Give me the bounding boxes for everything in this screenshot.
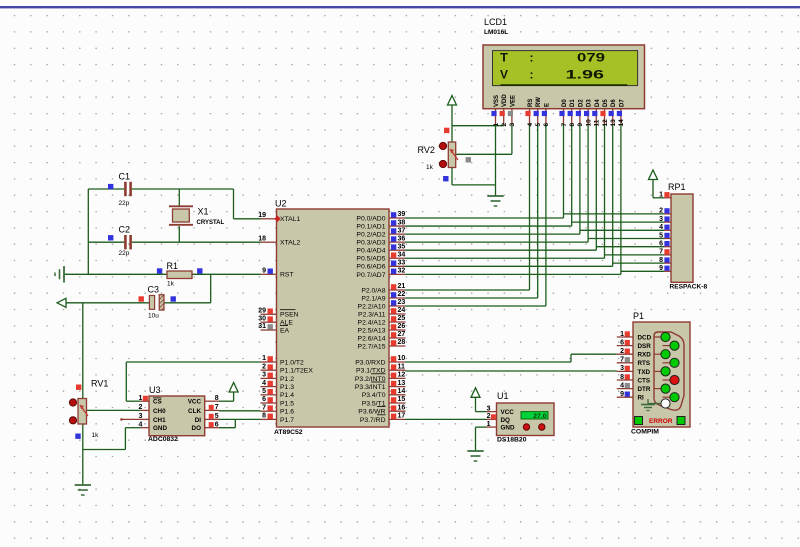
svg-text:U1: U1 [497,391,509,401]
svg-text:4: 4 [262,380,266,387]
svg-text:3: 3 [659,216,663,223]
svg-text:C1: C1 [119,172,131,182]
svg-text:38: 38 [398,219,406,226]
svg-text:2: 2 [138,404,142,411]
svg-text:8: 8 [569,123,576,127]
svg-text:RS: RS [528,99,534,107]
svg-text:D2: D2 [578,99,584,107]
svg-text:11: 11 [594,119,601,126]
svg-text:1k: 1k [92,432,100,439]
svg-text:D1: D1 [570,99,576,107]
svg-text:1.96: 1.96 [566,69,605,81]
svg-text:P3.0/RXD: P3.0/RXD [355,359,385,366]
svg-text:CS: CS [153,399,162,406]
svg-text:P2.3/A11: P2.3/A11 [358,311,386,318]
svg-text:14: 14 [618,119,625,127]
svg-text:19: 19 [258,212,266,219]
svg-text:7: 7 [262,404,266,411]
svg-text::: : [530,69,534,81]
svg-text:X1: X1 [198,207,209,217]
svg-text:GND: GND [153,425,167,432]
svg-text:16: 16 [398,404,406,411]
svg-text:3: 3 [487,405,491,412]
svg-text:8: 8 [262,413,266,420]
svg-text:4: 4 [659,224,663,231]
svg-text:5: 5 [659,232,663,239]
svg-text:10: 10 [398,355,406,362]
svg-text:RW: RW [536,97,542,107]
svg-text:RV2: RV2 [418,145,435,155]
svg-text:D4: D4 [595,99,601,107]
svg-text:1: 1 [262,355,266,362]
svg-text:22p: 22p [119,200,130,207]
svg-text:36: 36 [398,235,406,242]
svg-text:RST: RST [280,272,294,279]
svg-text:VCC: VCC [188,399,202,406]
svg-text:14: 14 [398,388,406,395]
svg-text:3: 3 [620,365,624,372]
svg-text:29: 29 [258,308,266,315]
svg-text:2: 2 [659,208,663,215]
svg-text:CLK: CLK [188,408,201,415]
svg-text:VEE: VEE [510,95,516,107]
svg-text:TXD: TXD [638,369,651,376]
svg-text:P0.6/AD6: P0.6/AD6 [356,264,385,271]
svg-text:P1.0/T2: P1.0/T2 [280,359,304,366]
svg-text:5: 5 [262,388,266,395]
svg-text:D7: D7 [619,99,625,107]
svg-text:P0.4/AD4: P0.4/AD4 [356,248,385,255]
svg-text:P0.0/AD0: P0.0/AD0 [356,215,385,222]
svg-text:6: 6 [659,241,663,248]
svg-text:8: 8 [659,257,663,264]
svg-text:D6: D6 [611,99,617,107]
svg-text:27: 27 [398,331,406,338]
svg-text:7: 7 [620,357,624,364]
svg-text:1: 1 [138,395,142,402]
svg-text:D0: D0 [562,99,568,107]
svg-text:12: 12 [602,119,609,127]
svg-text:13: 13 [398,380,406,387]
svg-text:XTAL1: XTAL1 [280,216,300,223]
svg-text:VCC: VCC [501,409,515,416]
svg-text:CRYSTAL: CRYSTAL [197,220,225,226]
svg-text:31: 31 [258,323,266,330]
svg-text:GND: GND [501,425,515,432]
svg-text:39: 39 [398,211,406,218]
svg-text:RV1: RV1 [91,379,108,389]
svg-text:21: 21 [398,283,406,290]
svg-text:2: 2 [262,363,266,370]
svg-text:5: 5 [215,413,219,420]
svg-text:26: 26 [398,323,406,330]
svg-text:PSEN: PSEN [280,312,299,319]
svg-text:9: 9 [620,391,624,398]
svg-text:RESPACK-8: RESPACK-8 [670,284,708,291]
svg-text:VSS: VSS [494,95,500,107]
svg-text:7: 7 [561,123,568,127]
svg-text:ERROR: ERROR [649,418,673,425]
svg-text:1k: 1k [426,164,434,171]
svg-text:XTAL2: XTAL2 [280,240,300,247]
svg-text:35: 35 [398,243,406,250]
svg-text:COMPIM: COMPIM [631,429,659,436]
svg-text:P0.2/AD2: P0.2/AD2 [356,232,385,239]
svg-text:DO: DO [192,425,202,432]
svg-text:9: 9 [659,265,663,272]
svg-text:DI: DI [195,417,202,424]
svg-text:E: E [544,103,550,107]
svg-text:25: 25 [398,315,406,322]
svg-text:9: 9 [577,123,584,127]
svg-text:1: 1 [493,123,500,127]
svg-text:1k: 1k [167,281,175,288]
svg-text:33: 33 [398,260,406,267]
svg-text:3: 3 [262,372,266,379]
svg-text:CTS: CTS [638,377,651,384]
svg-text:P1.3: P1.3 [280,384,294,391]
svg-text:DQ: DQ [501,417,511,424]
svg-text:27.0: 27.0 [533,413,546,420]
svg-text:P1.4: P1.4 [280,392,294,399]
svg-text:9: 9 [262,268,266,275]
svg-text:22: 22 [398,291,406,298]
svg-text:P1.5: P1.5 [280,400,294,407]
svg-text:ADC0832: ADC0832 [148,436,178,443]
svg-text:P0.3/AD3: P0.3/AD3 [356,240,385,247]
svg-text:6: 6 [215,422,219,429]
svg-text:C3: C3 [148,285,160,295]
svg-text:7: 7 [215,404,219,411]
svg-text:V: V [500,69,508,81]
svg-text:T: T [500,52,508,64]
svg-text:23: 23 [398,299,406,306]
svg-text:2: 2 [487,413,491,420]
svg-text:CH0: CH0 [153,408,166,415]
svg-text:P1: P1 [633,311,644,321]
svg-text:P0.5/AD5: P0.5/AD5 [356,256,385,263]
svg-text:P1.7: P1.7 [280,417,294,424]
svg-text:CH1: CH1 [153,417,166,424]
svg-text:4: 4 [620,382,624,389]
svg-text:EA: EA [280,327,290,334]
svg-text:LM016L: LM016L [484,29,508,36]
svg-text:10u: 10u [148,313,159,320]
svg-text:34: 34 [398,251,406,258]
svg-text:RP1: RP1 [668,182,686,192]
svg-text:U2: U2 [275,199,287,209]
svg-text:6: 6 [620,339,624,346]
svg-text:12: 12 [398,372,406,379]
svg-text:2: 2 [501,123,508,127]
svg-text:30: 30 [258,315,266,322]
svg-text:P0.1/AD1: P0.1/AD1 [356,223,385,230]
svg-text:4: 4 [138,422,142,429]
svg-text:37: 37 [398,227,406,234]
svg-text:24: 24 [398,307,406,314]
svg-text:28: 28 [398,339,406,346]
svg-text:D3: D3 [587,99,593,107]
svg-text:079: 079 [577,52,605,64]
svg-text:DCD: DCD [638,334,652,341]
svg-text::: : [530,52,534,64]
svg-text:6: 6 [262,396,266,403]
svg-text:RXD: RXD [638,352,652,359]
svg-text:1: 1 [487,421,491,428]
svg-text:C2: C2 [119,225,131,235]
svg-text:P2.0/A8: P2.0/A8 [361,287,385,294]
svg-text:P1.1/T2EX: P1.1/T2EX [280,368,313,375]
svg-text:11: 11 [398,363,406,370]
svg-text:18: 18 [258,235,266,242]
svg-text:P3.3/INT1: P3.3/INT1 [355,384,386,391]
svg-text:P3.7/RD: P3.7/RD [360,417,386,424]
svg-text:P2.4/A12: P2.4/A12 [358,319,386,326]
svg-text:5: 5 [535,123,542,127]
svg-text:P2.5/A13: P2.5/A13 [358,327,386,334]
svg-text:RI: RI [638,395,645,402]
svg-text:8: 8 [215,395,219,402]
svg-text:LCD1: LCD1 [484,17,507,27]
svg-text:10: 10 [585,119,592,127]
svg-text:P2.7/A15: P2.7/A15 [358,343,386,350]
svg-text:P2.2/A10: P2.2/A10 [358,303,386,310]
svg-text:22p: 22p [119,250,130,257]
svg-text:2: 2 [620,348,624,355]
svg-text:DS18B20: DS18B20 [497,437,527,444]
svg-text:R1: R1 [167,261,179,271]
svg-text:4: 4 [527,123,534,127]
svg-text:DTR: DTR [638,386,651,393]
svg-text:AT89C52: AT89C52 [274,429,303,436]
svg-text:1: 1 [620,331,624,338]
svg-text:1: 1 [659,192,663,199]
svg-text:7: 7 [659,249,663,256]
svg-text:8: 8 [620,374,624,381]
svg-text:17: 17 [398,413,406,420]
svg-text:U3: U3 [149,385,161,395]
svg-text:32: 32 [398,268,406,275]
svg-text:D5: D5 [603,99,609,107]
svg-text:P1.6: P1.6 [280,409,294,416]
svg-text:6: 6 [543,123,550,127]
svg-text:P2.1/A9: P2.1/A9 [361,295,385,302]
svg-text:DSR: DSR [638,343,652,350]
svg-text:P2.6/A14: P2.6/A14 [358,335,386,342]
svg-text:P1.2: P1.2 [280,376,294,383]
svg-text:RTS: RTS [638,360,651,367]
svg-text:15: 15 [398,396,406,403]
svg-text:P3.4/T0: P3.4/T0 [362,392,386,399]
svg-text:VDD: VDD [502,94,508,107]
svg-text:3: 3 [509,123,516,127]
svg-text:P0.7/AD7: P0.7/AD7 [356,272,385,279]
svg-text:3: 3 [138,413,142,420]
svg-text:13: 13 [610,119,617,127]
